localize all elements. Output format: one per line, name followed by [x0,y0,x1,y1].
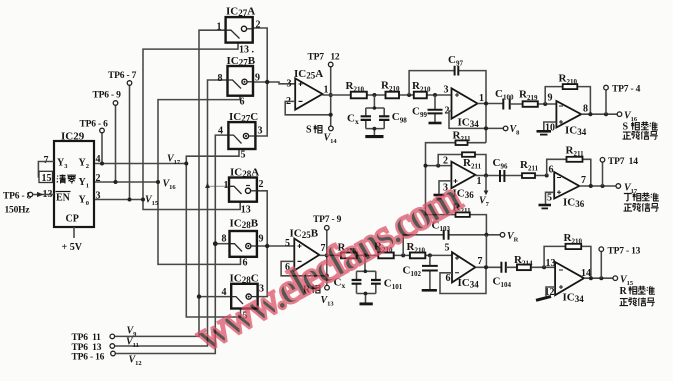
junction dots on control and input buses [141,198,145,202]
svg-text:TP6 - 9: TP6 - 9 [93,91,122,101]
svg-text:C99: C99 [412,106,427,120]
analog switch IC28C [231,284,257,309]
wire IC25B output vertical [326,230,328,285]
resistor R210 first S [351,92,367,99]
terminal TP7-4 [605,90,607,114]
svg-text:IC28B: IC28B [230,218,259,231]
svg-text:2: 2 [96,173,101,184]
wire TP6-8 arrow into EN pin13 [33,194,54,196]
wire IC25B feedback loop to pin6 [281,261,327,275]
wire S2 feedback loop [545,87,590,115]
svg-text:8: 8 [583,104,588,115]
svg-text:IC34: IC34 [565,125,587,138]
svg-text:4: 4 [96,154,101,165]
svg-text:13: 13 [241,205,251,216]
analog switch IC27A [226,17,253,42]
capacitor C99 to ground [434,95,436,122]
svg-text:15: 15 [42,173,52,184]
svg-text:TP6 - 16: TP6 - 16 [72,353,105,363]
ground IC36-1 [434,194,445,197]
wire IC34-1 output to C100 [478,103,504,105]
svg-text:V7: V7 [479,196,490,209]
svg-text:C104: C104 [493,276,512,290]
svg-text:2: 2 [256,20,261,31]
svg-text:3: 3 [287,79,292,90]
wire IC36-1 pin3 to ground [439,181,451,194]
svg-text:150Hz: 150Hz [5,206,31,216]
wire R-phase RC chain row [319,254,452,256]
svg-text:R210: R210 [412,80,431,94]
svg-text:EN: EN [56,193,71,204]
wire IC28 mux output vertical [257,191,267,297]
capacitor C103 feedback row [403,235,500,256]
svg-text:V8: V8 [510,124,521,137]
svg-text:R211: R211 [453,130,472,144]
svg-text:IC25A: IC25A [294,68,323,81]
svg-text:C100: C100 [495,88,514,102]
svg-text:TP6 13: TP6 13 [72,343,102,353]
svg-text:VR: VR [507,231,519,244]
wire V12 branch to IC28B pin8 [215,243,229,245]
svg-text:8: 8 [218,73,223,84]
label 正弦信号 S [623,132,632,139]
junction node C97 tap [407,93,411,97]
svg-text:R219: R219 [519,89,538,103]
resistor R216 [341,253,357,259]
ground for Cx C98 [365,135,383,138]
capacitor C96 [500,170,504,182]
svg-text:9: 9 [255,73,260,84]
junction node C99 tap [433,93,437,97]
svg-text:C97: C97 [448,54,463,68]
svg-text:5: 5 [241,150,246,161]
svg-text:IC36: IC36 [563,197,585,210]
svg-text:1: 1 [479,93,484,104]
svg-text:13 .: 13 . [239,45,255,56]
svg-text:6: 6 [446,273,451,284]
op-amp IC36 second [554,172,579,199]
svg-text:9: 9 [259,234,264,245]
svg-text:TP7 - 9: TP7 - 9 [313,215,342,225]
resistor R211 T2 input [522,173,535,178]
svg-text:IC27A: IC27A [226,6,255,19]
IC29 internal label 清零 [57,175,66,184]
svg-text:TP6 - 8: TP6 - 8 [3,192,32,202]
terminal R相 V13 [325,285,330,290]
capacitor C104 [501,262,505,273]
svg-text:IC29: IC29 [61,131,85,143]
wire Y0 control net to IC27A pin13 and IC28A pin13 [143,43,240,210]
svg-text:3: 3 [96,191,101,202]
capacitor C97 feedback [409,71,486,104]
svg-text:TP7 12: TP7 12 [308,53,340,63]
wire V9 net from TP6-11 to IC27A pin1 [115,30,226,336]
svg-text:V11: V11 [126,337,139,350]
wire C103 node down to IC34-3 output [485,235,487,267]
wire IC28B pin9 to IC25B pin5 [257,245,294,247]
svg-text:IC27B: IC27B [227,55,256,68]
svg-text:V16: V16 [163,179,177,192]
wire R4 feedback loop [544,246,591,278]
svg-text:+ 5V: + 5V [62,242,83,253]
svg-text:V15: V15 [145,195,159,208]
ground for C99 [429,122,442,125]
svg-text:V17: V17 [167,154,181,167]
wire S2 output row [581,113,617,115]
svg-text:4: 4 [218,126,223,137]
wire IC34-3 output row [475,266,501,268]
terminal S相 V14 [329,126,334,131]
svg-text:S: S [623,122,629,133]
svg-text:5: 5 [445,243,450,254]
wire T1 feedback loop [438,155,486,175]
stage T2 feedback loop [547,159,591,186]
svg-text:TP7 14: TP7 14 [608,157,638,167]
resistor R219 [523,101,538,107]
wire V12 net from TP6-16 to IC27C pin4 [115,135,228,353]
op-amp IC36 first [451,162,475,189]
svg-text:CP: CP [66,214,79,225]
svg-text:Y0: Y0 [79,195,89,208]
analog switch IC28A [229,178,257,202]
wire IC36-2 pin5 to ground [546,192,555,204]
terminal VR [500,233,505,238]
wire IC34-1 output vertical to R211 [485,104,487,143]
svg-text:2: 2 [443,156,448,167]
wire T1 output row to T2 [475,175,546,177]
analog switch IC28B [230,231,257,257]
IC29 counter box [54,141,94,227]
junction V11 to IC28A pin1 [205,183,210,188]
resistor R211 S to T coupling [426,143,487,235]
svg-text:IC25B: IC25B [290,228,319,241]
terminal TP7-14 [602,162,604,186]
svg-text:TP6 - 6: TP6 - 6 [80,120,109,130]
svg-text:Y3: Y3 [57,158,68,171]
svg-text:3: 3 [444,85,449,96]
wire IC25A feedback loop to pin2 [285,101,331,114]
svg-text:7: 7 [44,155,49,166]
ground IC34-4 slanted bar [536,296,551,300]
wire pin7 to pin15 reset strap [38,162,54,177]
svg-text:R211: R211 [520,159,539,173]
svg-text:8: 8 [222,234,227,245]
wire V9 branch to IC28C pin4 [199,296,231,298]
capacitor C102 to ground [429,255,431,289]
svg-text:3: 3 [258,126,263,137]
wire IC34-3 pin6 loop to output [440,267,486,293]
wire IC34-4 pin12 to ground [546,287,555,296]
svg-text:9: 9 [548,93,553,104]
svg-text:IC28A: IC28A [230,167,259,180]
terminal V16 output [617,112,622,117]
svg-text:R: R [620,286,628,297]
wire Y0 net row from IC29 pin3 [94,199,143,201]
terminal V8 [503,126,508,131]
op-amp IC34 second [556,101,581,128]
analog switch IC27C [228,122,255,149]
wire IC25A output node vertical [330,67,332,126]
svg-text:1: 1 [477,176,482,187]
terminal V17 output [616,184,621,189]
wire V11 net from TP6-13 to IC27B pin8 [115,80,228,346]
svg-text:C96: C96 [493,157,508,171]
svg-text:C102: C102 [403,265,422,279]
svg-text:5: 5 [547,193,552,204]
svg-text:IC34: IC34 [458,117,480,130]
resistor R210 R4 feedback [566,244,582,249]
analog switch IC27B [228,66,254,96]
op-amp IC25B [294,239,319,271]
svg-text:6: 6 [240,97,245,108]
wire TP6-6 drop to Y2 row [101,133,103,164]
ground for Cx C101 [360,302,373,305]
wire TP6-9 drop to Y1 row [115,105,117,182]
op-amp IC34 third [452,252,475,282]
wire S-phase RC chain row [323,94,452,96]
wire T2 output row [579,185,616,187]
svg-text:Y1: Y1 [79,177,89,190]
label 正弦信号 R [620,299,629,306]
wire C104 to R214 to IC34-4 [506,266,555,268]
wire Y2 net row from IC29 pin4 [94,163,186,165]
resistor R210 third R [410,253,425,259]
capacitor Cx and C101 network to ground [357,255,376,302]
svg-text:6: 6 [243,258,248,269]
resistor R210 S2 feedback [563,84,578,89]
svg-text:R211: R211 [566,145,585,159]
svg-text:7: 7 [581,175,586,186]
svg-text:R214: R214 [514,254,533,268]
op-amp IC34 first [452,88,478,118]
stage S2: capacitor C100 [503,99,509,110]
svg-text:TP6 11: TP6 11 [72,333,102,343]
svg-text:IC34: IC34 [563,292,585,305]
IC29 pin 15 boxed [39,171,53,182]
svg-text:R210: R210 [559,73,578,87]
wire IC27B pin9 to IC25A pin3 [253,82,295,84]
resistor R211 T2 feedback [567,157,583,162]
resistor R211 T to R coupling [456,212,470,217]
svg-text:6: 6 [549,165,554,176]
label 丁相基准 [624,194,632,201]
wire R4 output row [584,277,613,279]
ground IC34-2 [537,130,552,133]
svg-text:IC27C: IC27C [229,111,258,124]
wire IC34-2 pin10 to ground [544,122,557,130]
svg-text:V12: V12 [129,355,142,368]
wire CP to +5V [73,227,75,238]
svg-text:1: 1 [224,180,229,191]
resistor R214 [517,265,531,271]
resistor R210 second S [386,92,400,99]
wire TP6-7 drop to Y0 row [129,85,131,199]
wire T1 input row [426,165,452,167]
capacitor Cx and C98 network to ground [366,95,384,135]
svg-text:V14: V14 [324,133,338,146]
label 正弦信号 T [624,204,633,211]
wire IC34-1 pin2 to V8 row [449,111,503,128]
svg-text:TP7 - 4: TP7 - 4 [612,85,641,95]
svg-text:13: 13 [546,258,556,269]
wire C100 to R219 to IC34-2 [510,103,557,105]
svg-text:R211: R211 [463,157,482,171]
node V7 arrow [485,176,487,191]
svg-text:1: 1 [324,85,329,96]
svg-text:2: 2 [259,179,264,190]
svg-text:Y2: Y2 [79,158,89,171]
svg-text:R210: R210 [381,80,400,94]
svg-text:C101: C101 [384,278,403,292]
wire V11 branch to IC28A pin1 [208,185,230,187]
svg-text:1: 1 [217,22,222,33]
junction node after R210 [372,93,376,97]
svg-text:R210: R210 [564,232,583,246]
svg-text:Cx: Cx [347,113,359,127]
svg-text:IC34: IC34 [458,277,480,290]
svg-text:S: S [306,125,312,136]
svg-text:R210: R210 [346,80,365,94]
wire IC27 mux output vertical [253,28,268,136]
op-amp IC34 fourth [555,262,584,295]
svg-text:5: 5 [285,238,290,249]
wire Y1 control net to IC27B pin6 and IC28B pin6 [158,96,241,265]
svg-text:7: 7 [478,256,483,267]
terminal TP7-13 [600,252,602,279]
resistor R210 third S [414,92,427,99]
resistor R210 second R [378,253,393,259]
wire Y1 net row from IC29 pin2 [94,181,158,183]
resistor R211 T1 feedback [462,152,475,157]
op-amp IC25A [295,78,322,109]
terminal V15 output [613,276,618,281]
ground IC36-2 [539,204,552,207]
svg-text:TP7 - 13: TP7 - 13 [608,247,641,257]
svg-text:C98: C98 [392,111,407,125]
IC25A input polarity marks [299,82,303,86]
svg-text:TP6 - 7: TP6 - 7 [108,71,137,81]
wire Y2 control net to IC27C pin5 and IC28C pin5 [186,149,240,317]
ground for C102 [422,289,437,292]
